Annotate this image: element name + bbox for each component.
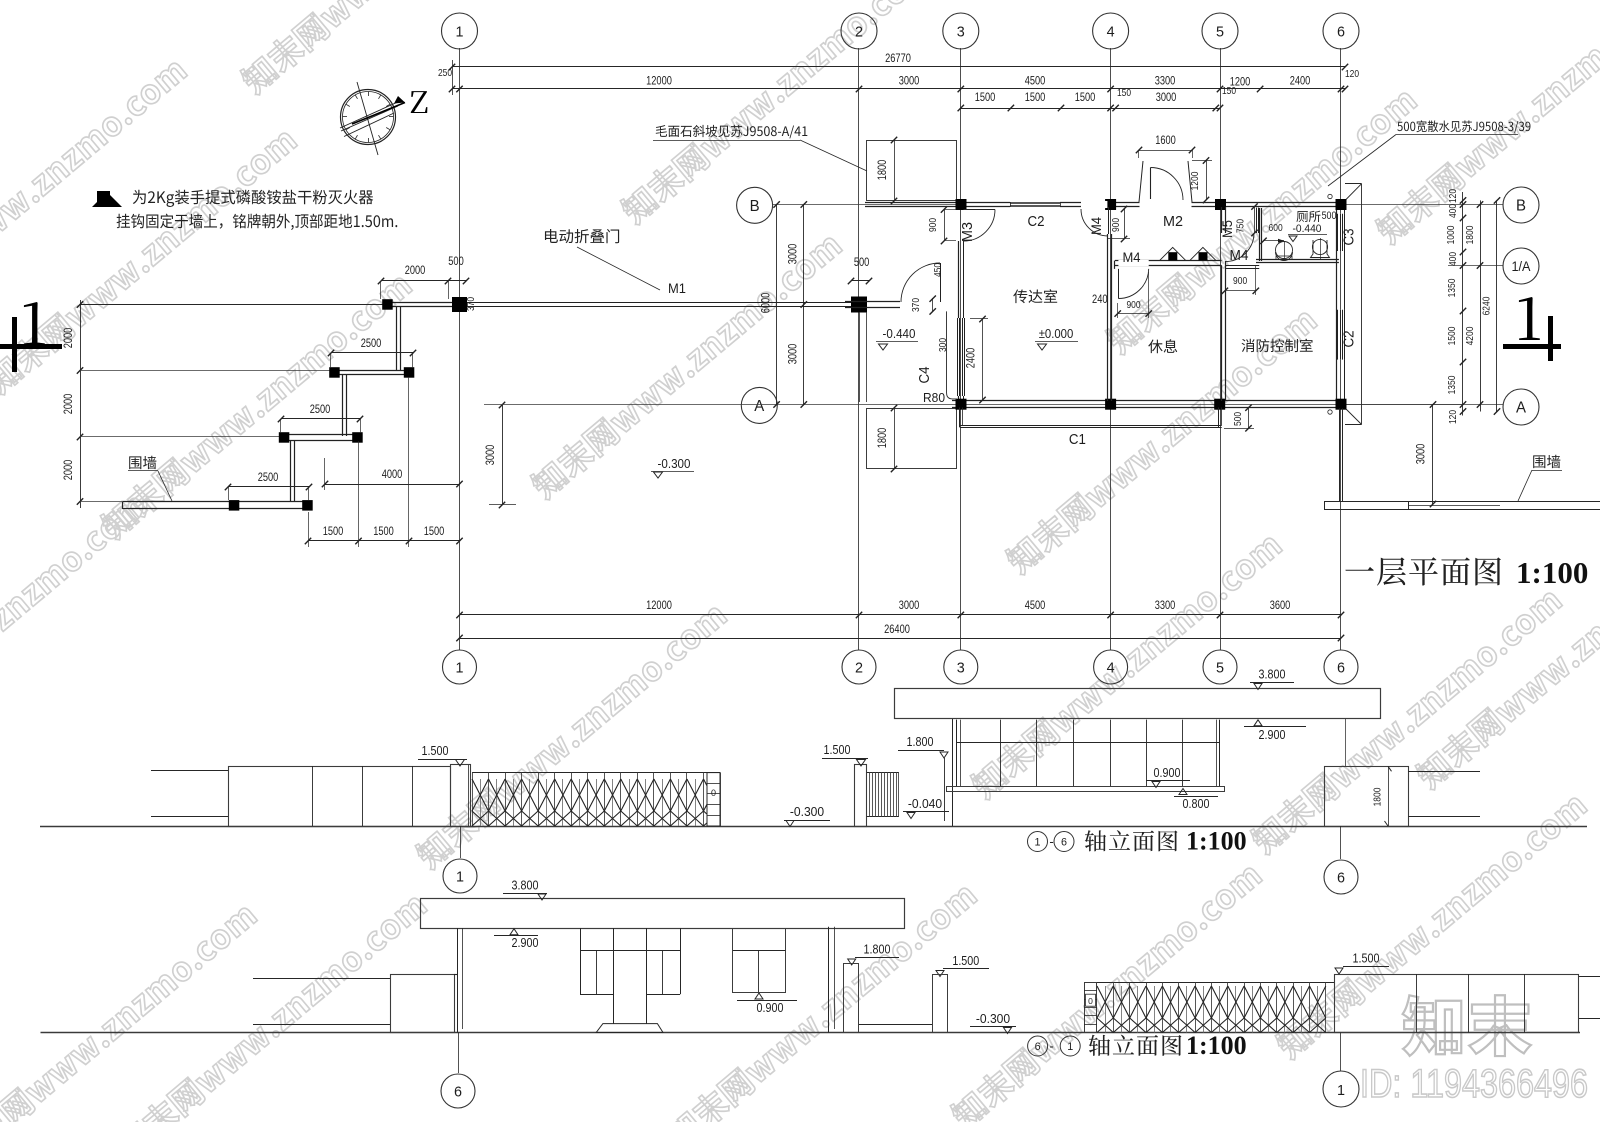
svg-text:0.800: 0.800 <box>1183 796 1210 811</box>
elev2 column <box>613 928 615 1024</box>
elev1 window band <box>956 720 958 787</box>
toilet fixtures: washbasin <box>1276 242 1293 259</box>
svg-text:26400: 26400 <box>884 624 910 636</box>
room label xiuxi <box>1148 339 1177 353</box>
elev1 railing bars <box>866 772 899 774</box>
C4 window symbol <box>957 318 959 396</box>
svg-text:3000: 3000 <box>787 244 799 265</box>
svg-text:6: 6 <box>1337 870 1345 887</box>
cesuo label <box>1296 211 1320 222</box>
elev2 circle 1 below <box>1340 1033 1342 1072</box>
top dimension row 3 (1500s) <box>961 108 1220 110</box>
svg-text:3: 3 <box>957 660 965 677</box>
porch step lines below grid2 column <box>859 312 861 402</box>
svg-text:1.500: 1.500 <box>1353 951 1380 966</box>
svg-text:±0.000: ±0.000 <box>1039 327 1074 341</box>
svg-text:500: 500 <box>854 257 870 269</box>
elev1 ground line <box>40 826 1587 828</box>
900 dim M4 top <box>1124 209 1126 239</box>
3000/3000 dim B-M1-A <box>803 205 805 405</box>
svg-text:2.900: 2.900 <box>512 935 539 950</box>
building left wall <box>958 241 960 318</box>
screen wall inside (R80) <box>946 311 948 393</box>
door at porch (on M1 axis) <box>940 263 942 302</box>
svg-text:370: 370 <box>910 298 922 312</box>
svg-text:M4: M4 <box>1123 249 1141 265</box>
toilet bottom wall <box>1256 259 1339 261</box>
elev1 left low wall <box>151 770 229 772</box>
toilet fixtures: wc <box>1312 239 1327 254</box>
svg-text:C4: C4 <box>916 367 933 384</box>
svg-text:2000: 2000 <box>405 265 426 277</box>
svg-text:0.900: 0.900 <box>757 1000 784 1015</box>
elev1 window sill slab <box>947 787 1225 792</box>
elev2 building right wall <box>828 927 830 1033</box>
B axis circle left <box>737 187 773 223</box>
svg-text:A: A <box>754 398 764 415</box>
plan title <box>1345 557 1501 585</box>
svg-text:2: 2 <box>855 660 863 677</box>
elev2 left low wall <box>253 978 391 980</box>
svg-text:1.800: 1.800 <box>907 734 934 749</box>
C3 window symbol right wall <box>1338 214 1345 251</box>
C2 window symbol right wall <box>1338 310 1345 360</box>
door M4 corridor leaf <box>1256 208 1258 233</box>
leader sanshui 500 <box>1397 120 1530 133</box>
B axis line left stub <box>773 204 958 206</box>
svg-text:400: 400 <box>1447 204 1459 218</box>
svg-text:1:100: 1:100 <box>1186 827 1247 856</box>
boundary wall step 1 top <box>391 302 452 304</box>
elev1 level 2.900 <box>1254 720 1262 726</box>
500 dim C1 bay <box>1248 408 1250 429</box>
2500 dim step2 <box>331 352 413 354</box>
svg-text:240: 240 <box>1092 294 1108 306</box>
elev1 title <box>1028 832 1048 852</box>
dian dong zhe die men label <box>545 229 619 243</box>
1600 dim M2 <box>1139 150 1192 152</box>
svg-text:1800: 1800 <box>877 428 889 449</box>
elev1 grid6 axis stub <box>1345 719 1347 766</box>
elev2 level 2.900 <box>510 929 518 935</box>
elev2 folding gate <box>1097 982 1334 984</box>
M1 wall stub grid2 to door <box>845 301 900 303</box>
leader maomianshi <box>656 125 808 138</box>
svg-text:M4: M4 <box>1088 217 1104 235</box>
svg-text:1500: 1500 <box>1025 92 1046 104</box>
svg-text:-: - <box>1049 834 1053 849</box>
svg-text:B: B <box>750 198 760 215</box>
svg-text:2: 2 <box>855 24 863 41</box>
M5 label + 750 dim <box>1254 207 1256 233</box>
svg-text:M3: M3 <box>959 222 976 242</box>
boundary wall step level lines <box>80 370 331 372</box>
svg-text:C2: C2 <box>1341 331 1358 348</box>
2000/500 dim at M1 gate <box>381 280 466 282</box>
svg-text:2000: 2000 <box>63 328 75 349</box>
M1 axis folding gate line <box>80 304 384 306</box>
elev1 low wall right of pier <box>1408 771 1480 773</box>
svg-text:3000: 3000 <box>899 600 920 612</box>
600 dim toilet <box>1264 240 1285 242</box>
svg-text:3600: 3600 <box>1270 600 1291 612</box>
1200 dim M2 <box>1206 161 1208 201</box>
svg-text:-0.440: -0.440 <box>883 327 916 341</box>
svg-text:1.500: 1.500 <box>422 743 449 758</box>
svg-text:4200: 4200 <box>1464 326 1476 345</box>
elev2 building left wall <box>457 928 459 1033</box>
svg-text:1/A: 1/A <box>1512 259 1531 274</box>
svg-text:2000: 2000 <box>63 394 75 415</box>
svg-text:-: - <box>1049 1039 1053 1054</box>
san shui apron right <box>1345 183 1362 185</box>
svg-text:120: 120 <box>1345 68 1359 80</box>
svg-text:750: 750 <box>1235 219 1247 233</box>
elev2 circle 6 below <box>458 1033 460 1074</box>
900 dim M4 middle <box>1118 313 1149 315</box>
svg-text:12000: 12000 <box>646 600 672 612</box>
elev1 building left wall <box>952 719 954 826</box>
svg-text:3000: 3000 <box>485 445 497 466</box>
svg-text:1500: 1500 <box>1446 326 1458 345</box>
elev1 gate post left <box>451 765 471 827</box>
grid1 big column on M1 <box>452 297 467 312</box>
svg-text:12000: 12000 <box>646 76 672 88</box>
interior wall grid4 vertical <box>1107 234 1109 401</box>
svg-text:150: 150 <box>1222 85 1236 97</box>
north compass <box>341 90 396 145</box>
svg-text:300: 300 <box>937 338 949 352</box>
elev1 folding gate <box>472 772 720 774</box>
svg-text:3: 3 <box>957 24 965 41</box>
top dimension row 26770 <box>452 66 1345 68</box>
svg-text:4000: 4000 <box>382 469 403 481</box>
svg-text:400: 400 <box>1447 252 1459 266</box>
svg-text:1800: 1800 <box>1464 225 1476 244</box>
svg-text:ID: 1194366496: ID: 1194366496 <box>1360 1062 1588 1106</box>
svg-text:1350: 1350 <box>1446 375 1458 394</box>
svg-text:3000: 3000 <box>787 344 799 365</box>
svg-text:500: 500 <box>448 256 464 268</box>
section mark 1 right <box>1548 316 1553 361</box>
svg-text:3.800: 3.800 <box>512 878 539 893</box>
boundary wall step 4 (bottom) <box>123 501 309 503</box>
right dim line 1 (segments) <box>1462 192 1464 416</box>
svg-text:500: 500 <box>1232 412 1244 426</box>
svg-text:1:100: 1:100 <box>1186 1031 1247 1060</box>
svg-text:M1: M1 <box>668 280 686 296</box>
canopy slab top <box>867 141 957 201</box>
door M4 middle (xiuxi) <box>1118 269 1120 299</box>
svg-text:3000: 3000 <box>899 76 920 88</box>
svg-text:1350: 1350 <box>1446 278 1458 297</box>
2500 dim step4 <box>228 486 309 488</box>
elev2 roof slab <box>421 899 905 929</box>
svg-text:-0.300: -0.300 <box>790 804 824 819</box>
znzmo logo <box>1403 995 1531 1056</box>
svg-text:500: 500 <box>1322 210 1337 222</box>
6000 dim B-A <box>776 205 778 405</box>
legend text line1 <box>133 190 373 207</box>
elev1 circle 1 below <box>460 826 462 858</box>
A axis line right extension <box>1345 404 1503 406</box>
svg-text:1500: 1500 <box>1075 92 1096 104</box>
svg-text:250: 250 <box>438 67 452 79</box>
svg-text:1: 1 <box>1337 1082 1345 1099</box>
1500 dims bottom of stairs <box>308 540 460 542</box>
svg-text:1800: 1800 <box>1372 787 1384 806</box>
svg-text:2400: 2400 <box>1290 76 1311 88</box>
elev2 level 0.900 <box>755 993 763 999</box>
svg-text:1: 1 <box>456 869 464 886</box>
svg-text:1800: 1800 <box>877 160 889 181</box>
svg-text:R80: R80 <box>923 390 945 405</box>
svg-text:3300: 3300 <box>1155 76 1176 88</box>
elev2 right wall continuation <box>1579 976 1600 978</box>
svg-text:5: 5 <box>1216 660 1224 677</box>
svg-text:120: 120 <box>1447 410 1459 424</box>
svg-text:1:100: 1:100 <box>1516 555 1588 590</box>
svg-text:1500: 1500 <box>975 92 996 104</box>
wei qiang label left <box>129 456 156 469</box>
svg-text:2500: 2500 <box>361 338 382 350</box>
xiuxi top wall <box>1115 260 1222 262</box>
C1 window bay bottom <box>959 408 961 428</box>
svg-text:2.900: 2.900 <box>1259 727 1286 742</box>
svg-text:-0.440: -0.440 <box>1293 223 1322 235</box>
svg-text:4500: 4500 <box>1025 76 1046 88</box>
elev2 left pier <box>391 975 455 1033</box>
section mark 1 left <box>12 317 17 372</box>
elev1 level 0.800 <box>1179 789 1187 795</box>
svg-text:1600: 1600 <box>1155 135 1176 147</box>
svg-text:2400: 2400 <box>966 348 978 369</box>
boundary wall step 2 <box>331 370 413 372</box>
boundary wall vertical 3 <box>290 440 292 501</box>
900 dim corridor <box>1225 290 1256 292</box>
svg-text:C1: C1 <box>1069 431 1086 448</box>
C2 window top wall <box>1010 201 1060 207</box>
bottom dimension 26400 row <box>460 638 1342 640</box>
boundary wall vertical 1 <box>396 307 398 371</box>
svg-text:6000: 6000 <box>761 293 773 314</box>
svg-text:1: 1 <box>1067 1041 1073 1053</box>
room label fire control <box>1242 339 1313 352</box>
svg-text:450: 450 <box>932 263 944 277</box>
svg-text:1500: 1500 <box>424 526 445 538</box>
room label chuandashi <box>1013 289 1057 303</box>
svg-text:3.800: 3.800 <box>1259 667 1286 682</box>
svg-text:0.900: 0.900 <box>1154 765 1181 780</box>
svg-text:C3: C3 <box>1341 229 1358 246</box>
svg-text:150: 150 <box>1117 87 1131 99</box>
4000 dim <box>325 484 460 486</box>
svg-text:6240: 6240 <box>1481 296 1493 315</box>
door M4 top (B wall) <box>1108 207 1110 234</box>
A axis circle left <box>741 387 777 423</box>
fire extinguishers on wall <box>1160 247 1186 260</box>
elev2 right wall <box>1335 975 1579 1033</box>
3000 dim left portion below A <box>502 405 504 505</box>
fire control room top-left wall <box>1225 265 1259 267</box>
columns on B wall <box>956 199 967 210</box>
svg-text:4: 4 <box>1107 660 1115 677</box>
svg-text:600: 600 <box>1269 222 1283 234</box>
elev2 ground line <box>41 1032 1581 1034</box>
A axis line <box>484 404 1463 406</box>
svg-text:4500: 4500 <box>1025 600 1046 612</box>
svg-text:1: 1 <box>456 660 464 677</box>
top dimension row segments <box>452 88 1345 90</box>
svg-text:A: A <box>1516 400 1526 417</box>
svg-text:M2: M2 <box>1163 213 1183 230</box>
grid lines 1-6 vertical <box>459 48 461 650</box>
svg-text:1500: 1500 <box>373 526 394 538</box>
svg-text:-0.300: -0.300 <box>976 1011 1010 1026</box>
elev1 circle 6 below <box>1340 826 1342 859</box>
B axis line through building <box>1345 204 1503 206</box>
wei qiang label right <box>1533 455 1560 468</box>
svg-text:0: 0 <box>1088 996 1093 1006</box>
grid2 column on M1 <box>851 297 867 313</box>
svg-text:1.500: 1.500 <box>824 742 851 757</box>
B wall openings (M4 top, M2) <box>1081 201 1107 208</box>
elev1 fence pier <box>1325 767 1409 827</box>
building right wall <box>1336 207 1338 401</box>
grid circles bottom <box>443 650 477 684</box>
svg-text:6: 6 <box>1337 660 1345 677</box>
xiuxi right wall / xiaofang left wall <box>1221 265 1223 401</box>
door M3 (left wall top) <box>964 209 996 211</box>
grid5 wall above (corridor) <box>1221 207 1223 233</box>
svg-text:6: 6 <box>1035 1041 1041 1053</box>
grid circles top <box>442 13 478 49</box>
svg-text:1: 1 <box>456 24 464 41</box>
elev1 roof slab <box>895 689 1381 719</box>
svg-text:B: B <box>1516 198 1526 215</box>
elev1 wall panels <box>229 767 451 827</box>
legend extinguisher symbol <box>92 192 122 207</box>
boundary wall step 3 <box>281 434 360 436</box>
svg-text:3000: 3000 <box>1156 92 1177 104</box>
svg-text:2500: 2500 <box>258 472 279 484</box>
south fence wall (wei qiang) <box>1324 501 1600 503</box>
left vertical dim line 2000x3 <box>80 300 82 508</box>
svg-text:900: 900 <box>927 218 939 232</box>
north arrow <box>352 103 405 125</box>
boundary wall vertical 2 <box>342 375 344 436</box>
elev1 gate post right <box>855 765 867 827</box>
svg-text:1500: 1500 <box>323 526 344 538</box>
svg-text:900: 900 <box>1126 299 1140 311</box>
svg-text:6: 6 <box>1061 837 1067 849</box>
svg-text:2000: 2000 <box>63 460 75 481</box>
canopy slab bottom <box>867 409 957 469</box>
svg-text:900: 900 <box>1110 218 1122 232</box>
svg-text:5: 5 <box>1216 24 1224 41</box>
900 dim M3 <box>944 210 946 242</box>
svg-text:M4: M4 <box>1230 247 1249 264</box>
right axis circles B 1/A A <box>1503 187 1539 223</box>
right dim line 3 (6240) <box>1496 200 1498 411</box>
svg-text:26770: 26770 <box>885 53 911 65</box>
building bottom wall (A axis) <box>952 400 1345 402</box>
elev2 window cluster with column <box>580 928 582 994</box>
below-building wall to fence (grid6) <box>1339 409 1341 502</box>
2400 dim C4 <box>982 319 984 400</box>
door M2 (main entrance top) <box>1139 161 1143 202</box>
bottom dimension segments row <box>460 614 1342 616</box>
svg-text:2500: 2500 <box>310 404 331 416</box>
svg-text:M5: M5 <box>1219 220 1235 238</box>
svg-text:120: 120 <box>1447 189 1459 203</box>
svg-text:3000: 3000 <box>1416 444 1428 465</box>
svg-text:3300: 3300 <box>1155 600 1176 612</box>
elev2 window right group <box>733 929 786 993</box>
svg-text:4: 4 <box>1107 24 1115 41</box>
svg-text:1200: 1200 <box>1189 171 1201 190</box>
svg-text:-0.300: -0.300 <box>658 457 691 471</box>
2500 dim step3 <box>281 418 360 420</box>
svg-text:6: 6 <box>1337 24 1345 41</box>
svg-text:C2: C2 <box>1028 213 1045 230</box>
building top wall (B axis) <box>865 202 1345 204</box>
toilet left wall <box>1259 208 1261 261</box>
svg-text:900: 900 <box>1233 275 1247 287</box>
svg-text:1.800: 1.800 <box>864 942 891 957</box>
svg-text:1.500: 1.500 <box>952 953 979 968</box>
elev2 low rail line <box>859 1024 933 1026</box>
elev2 title <box>1028 1036 1048 1056</box>
svg-text:1000: 1000 <box>1445 225 1457 244</box>
svg-text:1: 1 <box>1035 837 1041 849</box>
legend text line2 <box>117 214 398 230</box>
svg-text:6: 6 <box>454 1084 462 1101</box>
500 dim at grid2 column <box>851 280 869 282</box>
svg-text:0: 0 <box>711 788 716 798</box>
svg-text:-0.040: -0.040 <box>908 796 942 811</box>
3000 dim to fence <box>1432 405 1434 505</box>
1/A axis line <box>1448 265 1503 267</box>
columns on A wall <box>956 399 967 410</box>
right dim line 2 <box>1480 200 1482 411</box>
